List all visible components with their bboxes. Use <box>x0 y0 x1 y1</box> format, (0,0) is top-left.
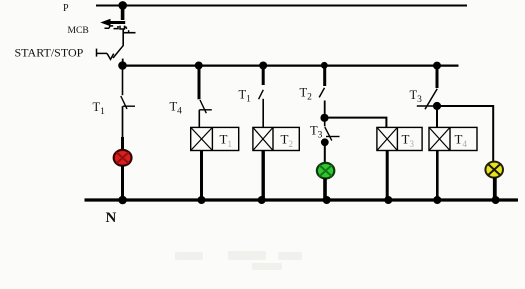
wire red lamp to N bus <box>121 166 124 201</box>
svg-text:START/STOP: START/STOP <box>15 46 84 60</box>
wire contact to timer coil T1 <box>198 110 200 128</box>
branch 2 wire from bus <box>198 66 201 99</box>
branch 1 wire from bus <box>122 66 124 95</box>
wire to green lamp <box>324 142 326 164</box>
branch 3 wire from bus <box>262 66 265 85</box>
wire coil T3 to N bus <box>386 151 389 201</box>
contact T1 (branch 3) <box>259 90 264 99</box>
node dot branch 1 <box>118 61 127 70</box>
contact T3 (branch 5) <box>417 89 437 110</box>
timer coil T1 box <box>191 127 239 150</box>
wire yellow lamp to N bus <box>493 178 497 201</box>
node dot branch 2 <box>195 62 203 70</box>
START/STOP pushbutton switch <box>97 49 114 60</box>
svg-text:P: P <box>63 3 69 14</box>
node dot branch 3 <box>259 62 267 70</box>
node dot branch 4 tee <box>320 114 328 122</box>
green lamp <box>317 163 334 179</box>
branch 5 wire from bus <box>436 66 439 88</box>
N bus dot branch 4 <box>323 196 331 204</box>
timer coil T2 box <box>253 127 299 150</box>
wire from switch to main bus <box>122 59 124 66</box>
wire coil T1 to N bus <box>200 151 203 201</box>
yellow lamp <box>485 162 503 178</box>
contact T3 (branch 4, below node) <box>325 118 340 141</box>
N bus (neutral rail) <box>85 198 519 201</box>
junction dot on P rail <box>118 1 127 10</box>
main bus wire <box>121 64 459 66</box>
P rail (phase power rail) <box>96 5 467 7</box>
N bus dot coil T4 <box>433 196 441 204</box>
faint scan artifacts <box>175 251 302 270</box>
node dot branch 4 <box>321 62 328 69</box>
wire coil T4 to N bus <box>436 151 439 201</box>
junction blob below contact T3 <box>321 138 329 146</box>
node dot branch 5 <box>433 62 441 70</box>
timer coil T3 box <box>377 127 422 150</box>
wire node to yellow lamp (horizontal) <box>437 106 493 162</box>
wire coil T2 to N bus <box>262 151 265 201</box>
contact T1 (branch 1) <box>121 96 135 109</box>
branch 4 wire from bus <box>323 66 326 86</box>
MCB circuit breaker <box>100 19 135 58</box>
wire contact to red lamp <box>122 106 124 138</box>
contact T2 (branch 4) <box>319 88 324 98</box>
node dot branch 5 tee <box>433 102 441 110</box>
wire node to coil T4 <box>436 106 438 128</box>
wire from P rail down to MCB <box>121 6 125 21</box>
N bus dot branch 2 <box>198 196 206 204</box>
wire node to coil T3 (horizontal) <box>325 118 387 128</box>
N bus dot coil T3 <box>384 196 392 204</box>
wire contact to timer coil T2 <box>262 99 264 128</box>
wire green lamp to N bus <box>323 178 327 200</box>
N bus dot branch 1 <box>118 196 127 205</box>
timer coil T4 box <box>429 127 477 150</box>
wire contact to node <box>324 101 326 119</box>
svg-text:N: N <box>106 210 117 226</box>
contact T4 (branch 2) <box>199 100 212 113</box>
red lamp <box>114 150 132 166</box>
svg-text:MCB: MCB <box>68 25 89 36</box>
N bus dot yellow lamp <box>492 196 500 204</box>
N bus dot branch 3 <box>258 196 266 204</box>
